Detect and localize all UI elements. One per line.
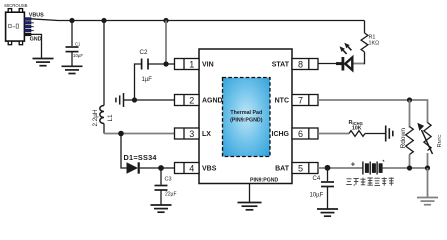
svg-text:C1: C1 [75,41,81,46]
wire to bottom right ground [427,168,429,197]
ground (C1) [62,66,83,73]
svg-text:STAT: STAT [272,62,290,69]
svg-text:C3: C3 [165,177,172,183]
wire VIN column [165,21,167,65]
capacitor C2 [142,59,148,70]
connector J1 pin 4 [24,29,33,32]
svg-text:MICROUSB: MICROUSB [4,3,27,8]
svg-text:BAT: BAT [275,166,290,173]
wire diode to VBS pin [140,167,175,169]
LED D2 [336,43,352,71]
ground (C4) [317,209,338,216]
svg-text:1: 1 [189,59,194,69]
capacitor C1 [66,47,79,52]
junction AGND node [132,97,137,102]
wire BAT row [318,167,363,169]
capacitor C4 [321,182,334,187]
pin box 4 [175,163,200,174]
svg-text:1µF: 1µF [142,77,153,83]
wire NTC row [318,100,428,123]
wire L1 column [103,21,105,106]
pin box 2 [175,95,200,106]
svg-text:7: 7 [298,95,303,105]
connector J1 pin 2 [24,22,33,25]
svg-text:VIN: VIN [202,62,214,69]
svg-text:4: 4 [189,163,194,173]
wire VIN stub to pin 1 [166,63,175,65]
junction VIN node [163,61,168,66]
wire GND from USB [31,34,42,58]
wire L1 to LX [103,124,105,134]
IC U1 body [199,49,292,184]
svg-text:+: + [351,159,356,168]
svg-text:ICHG: ICHG [272,131,290,138]
svg-text:RNTC: RNTC [437,134,443,147]
thermal pad (PIN9:PGND) [223,78,271,157]
wire C1 column [71,21,73,47]
wire C4 to ground [327,187,329,209]
svg-text:D1=SS34: D1=SS34 [124,153,158,162]
label 三节锂电池串联 (battery text) [346,177,394,185]
inductor L1 [100,106,104,124]
pin box 5 [292,163,318,174]
svg-text:R1: R1 [369,34,376,40]
wire C3 column [160,168,162,185]
wire STAT row [318,63,340,65]
wire R1 bottom [364,52,366,64]
resistor Rntc (thermistor) [417,123,432,155]
junction Rdown/BAT [407,165,412,170]
connector J1 MICROUSB body [6,9,25,45]
capacitor C3 [155,186,168,191]
connector J1 pin 1 (VBUS) [24,18,31,21]
svg-text:AGND: AGND [202,98,223,105]
junction on rail at C1 [69,18,74,23]
svg-text:6: 6 [298,129,303,139]
connector J1 pin 5 (GND) [24,33,31,36]
svg-text:10µF: 10µF [73,53,83,58]
resistor RICHG [349,131,365,137]
wire ICHG row [318,133,349,135]
ground (bottom right) [417,198,438,205]
wire VBUS top rail [31,19,365,21]
wire AGND row to pin 2 [135,99,175,101]
svg-text:10µF: 10µF [310,193,324,199]
svg-text:10K: 10K [352,126,362,132]
ground (ICHG, sideways right) [386,126,393,142]
wire AGND to side ground [124,99,135,101]
battery BT1 (3 cells) [351,159,384,174]
svg-text:C2: C2 [140,49,148,56]
wire battery to right column [383,167,428,169]
svg-text:5: 5 [298,163,303,173]
pin box 3 [175,128,200,139]
svg-text:VBUS: VBUS [29,12,44,18]
ground (PGND) [238,203,262,210]
ground (AGND, sideways left) [116,93,124,107]
svg-text:3: 3 [189,129,194,139]
connector J1 pin 3 [24,25,33,28]
junction NTC/Rdown [407,97,412,102]
wire rail to R1 top [364,21,366,34]
wire LX junction down to diode [121,134,127,169]
junction BAT/C4 [325,165,331,171]
svg-text:VBS: VBS [202,166,217,173]
junction LX/diode [118,131,124,137]
wire C1 to ground [71,52,73,66]
svg-text:8: 8 [298,59,303,69]
wire PGND to ground [249,184,251,203]
pin box 6 [292,128,318,139]
wire RICHG to ground [365,133,386,135]
svg-text:GND: GND [30,37,42,43]
wire C2 right to VIN node [148,63,166,65]
ground (USB) [33,59,54,66]
ground (C3) [151,205,172,212]
junction VBS/C3 [158,165,164,171]
diode D1 [127,162,139,173]
svg-text:LX: LX [202,131,211,138]
wire C2 left down to AGND row [135,64,142,100]
svg-text:(PIN9:PGND): (PIN9:PGND) [230,117,263,123]
wire Rntc bottom [427,153,429,168]
svg-text:Rdown: Rdown [400,128,407,149]
wire Rdown top [409,100,411,128]
wire LX row [104,133,175,135]
resistor R1 [361,33,368,52]
junction on rail at L1 [101,18,106,23]
svg-text:2: 2 [189,95,194,105]
svg-text:L1: L1 [107,114,114,122]
pin box 7 [292,95,318,106]
svg-text:PIN9:PGND: PIN9:PGND [250,177,279,183]
svg-text:C4: C4 [313,176,321,182]
wire Rdown bottom [409,155,411,169]
pin box 8 [292,59,318,70]
svg-text:Thermal Pad: Thermal Pad [230,110,262,116]
svg-text:1KΩ: 1KΩ [369,41,380,47]
svg-text:NTC: NTC [275,98,289,105]
pin box 1 [175,59,200,70]
resistor Rdown [406,127,414,155]
wire C4 column [327,168,329,181]
svg-text:22µF: 22µF [165,192,177,198]
wire LED to R1 [354,63,365,65]
svg-text:2.2µH: 2.2µH [92,109,99,126]
junction Rntc/BAT [425,165,430,170]
junction on rail at VIN column [163,18,168,23]
wire C3 to ground [160,190,162,205]
